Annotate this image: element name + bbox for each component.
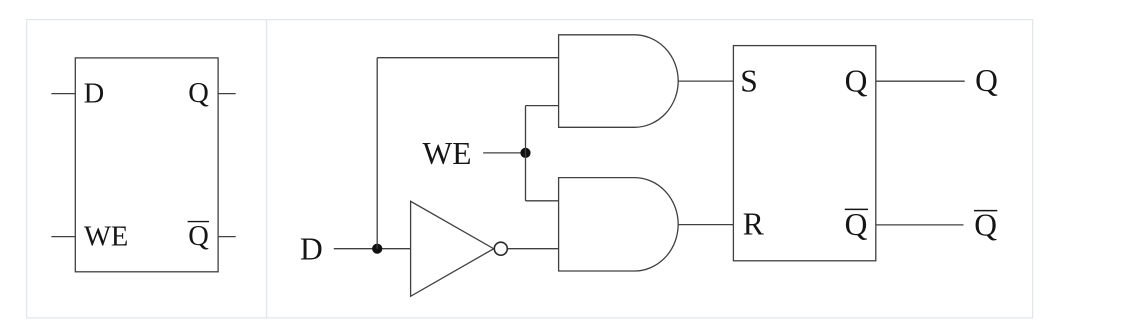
wire Q output xyxy=(876,80,965,82)
wire D input xyxy=(334,248,410,250)
wire U1 WE input stub xyxy=(51,236,75,238)
pin label Qbar (U1) xyxy=(188,221,210,252)
svg-text:WE: WE xyxy=(84,222,128,253)
wire D branch vertical xyxy=(376,58,378,249)
AND gate G1 xyxy=(559,35,679,128)
wire WE input xyxy=(483,152,525,154)
pin label Qbar (U3) xyxy=(845,207,868,242)
junction dot D xyxy=(372,244,382,254)
svg-text:WE: WE xyxy=(423,136,472,171)
wire Qbar output xyxy=(876,224,964,226)
latch block U1 xyxy=(75,58,218,272)
wire G1 output to S xyxy=(678,80,733,82)
svg-text:Q: Q xyxy=(974,207,997,242)
svg-text:D: D xyxy=(84,78,105,109)
right panel frame xyxy=(267,20,1033,318)
wire D branch to AND1 input A xyxy=(377,57,558,59)
SR latch block U3 xyxy=(733,46,875,261)
wire U1 Qbar output stub xyxy=(218,236,236,238)
wire WE branch to AND1 input B xyxy=(526,105,559,107)
wire U1 Q output stub xyxy=(218,93,236,95)
wire WE branch vertical xyxy=(525,106,527,201)
wire WE branch to AND2 input A xyxy=(526,200,559,202)
wire U2 output to AND2 input B xyxy=(508,248,559,250)
inverter U2 bubble xyxy=(494,242,507,255)
net label Qbar xyxy=(974,207,997,242)
svg-text:Q: Q xyxy=(975,63,998,98)
svg-text:S: S xyxy=(740,63,758,98)
svg-text:R: R xyxy=(743,207,764,242)
svg-text:Q: Q xyxy=(845,207,868,242)
svg-text:D: D xyxy=(300,231,323,266)
svg-text:Q: Q xyxy=(188,78,209,109)
AND gate G2 xyxy=(559,178,679,271)
wire U1 D input stub xyxy=(51,93,75,95)
inverter U2 xyxy=(411,201,494,296)
svg-text:Q: Q xyxy=(188,221,209,252)
left panel frame xyxy=(27,20,267,318)
junction dot WE xyxy=(520,148,530,158)
svg-text:Q: Q xyxy=(845,63,868,98)
wire G2 output to R xyxy=(678,224,733,226)
